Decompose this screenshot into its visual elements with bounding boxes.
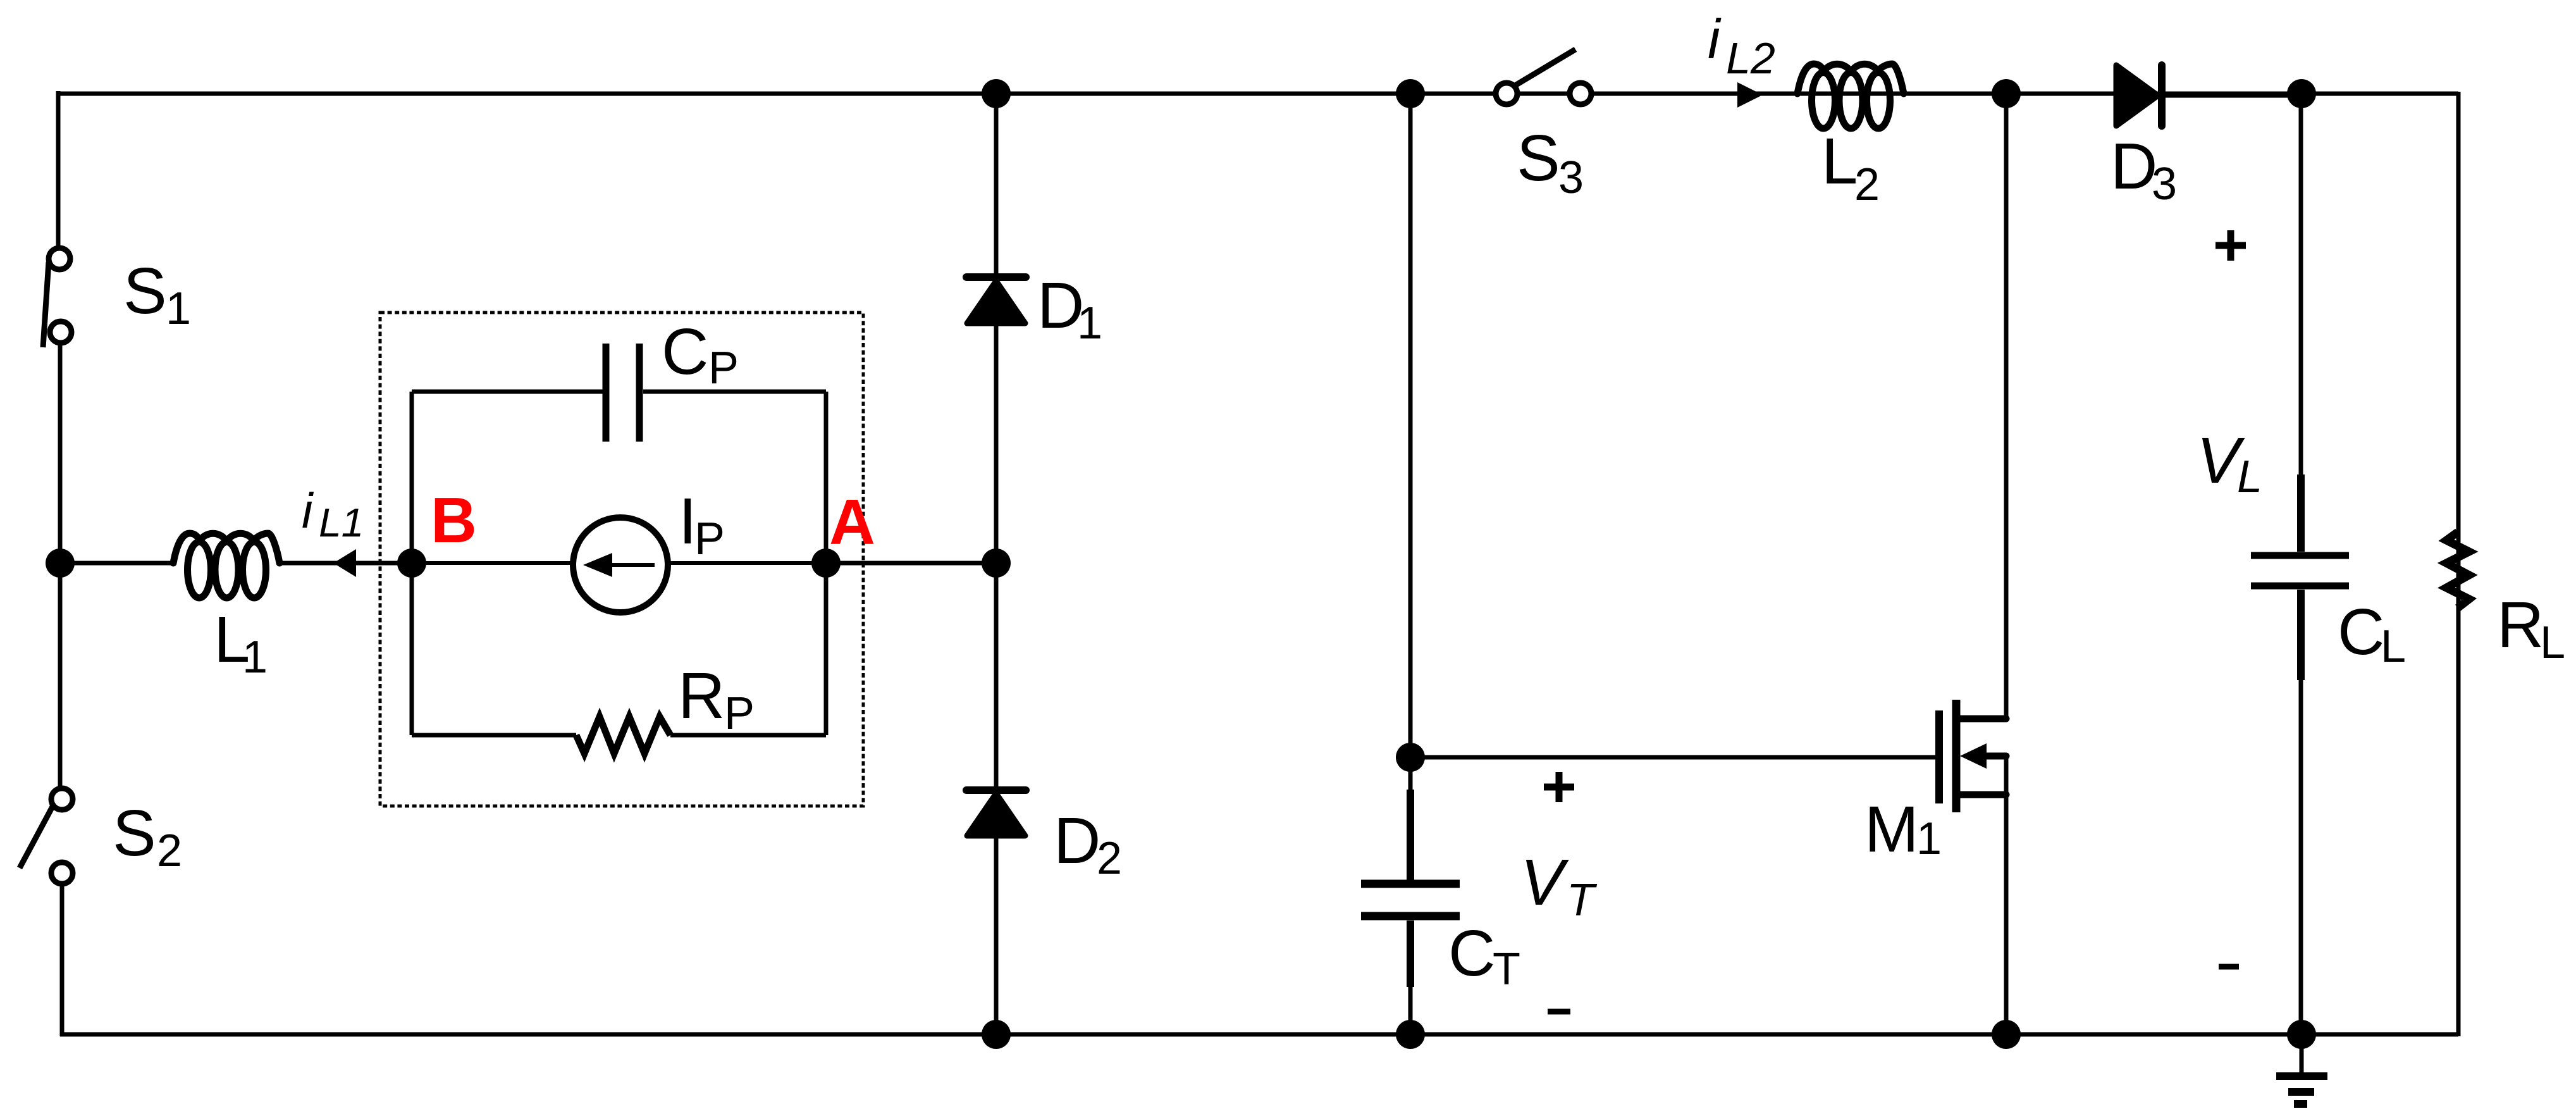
wire left mid — [58, 343, 63, 788]
wire bottom — [60, 1032, 2458, 1037]
ground — [2276, 1076, 2327, 1104]
resistor RP — [576, 717, 670, 753]
wire CT vertical top — [1408, 94, 1413, 880]
current arrow iL1 — [333, 549, 356, 577]
wire L2 to D3 — [1904, 92, 2116, 96]
switch S1 pole circles — [49, 248, 71, 343]
wire M1 drain vertical — [2004, 94, 2009, 719]
M1 body arrow — [1960, 743, 1987, 769]
wire left lower — [60, 884, 65, 1036]
node left — [46, 549, 75, 578]
M1 source lead — [1956, 791, 2006, 798]
switch S2 pole circles — [51, 788, 73, 884]
inductor L2 — [1797, 64, 1904, 128]
svg-text:A: A — [829, 487, 875, 558]
switch S1 blade — [43, 262, 49, 347]
svg-text:L1: L1 — [319, 500, 364, 545]
svg-text:1: 1 — [1077, 298, 1102, 349]
svg-text:1: 1 — [242, 632, 268, 683]
svg-text:M: M — [1864, 793, 1919, 865]
wire IP to node A — [668, 561, 826, 565]
wire ground stem — [2300, 1034, 2304, 1076]
wire CL vertical bottom — [2299, 664, 2303, 1034]
svg-text:2: 2 — [157, 826, 182, 876]
svg-text:S: S — [1517, 121, 1560, 194]
VL plus — [2215, 230, 2246, 261]
node bottom D2 — [982, 1020, 1011, 1049]
svg-text:L: L — [1821, 125, 1858, 197]
M1 gate bar — [1935, 710, 1943, 803]
VT minus — [1548, 1009, 1570, 1015]
svg-text:C: C — [2338, 595, 2384, 668]
node top M1 — [1992, 79, 2021, 108]
svg-text:R: R — [678, 659, 725, 732]
node bottom CL — [2287, 1020, 2316, 1049]
inductor L1 — [173, 533, 280, 598]
switch S2 blade — [20, 805, 53, 868]
node top D1 — [982, 79, 1011, 108]
wire node A to junction — [826, 561, 996, 566]
wire right — [2456, 92, 2461, 1036]
wire S3 right to L2 — [1591, 92, 1797, 96]
wire CT vertical bottom — [1408, 921, 1413, 1034]
wire node B to IP — [412, 561, 573, 565]
diode D3 — [2116, 65, 2158, 126]
svg-text:S: S — [113, 797, 156, 869]
diode D1 — [967, 281, 1025, 323]
wire gate — [1410, 755, 1935, 760]
wire L1 to node B — [280, 561, 412, 566]
capacitor CT — [1361, 790, 1460, 987]
capacitor CL — [2251, 474, 2349, 680]
svg-text:3: 3 — [2152, 159, 2177, 209]
node gate — [1396, 743, 1425, 772]
svg-text:D: D — [2111, 130, 2157, 202]
VL minus — [2219, 964, 2239, 970]
switch S3 pole circles — [1496, 83, 1591, 104]
VT plus — [1544, 772, 1574, 802]
svg-text:2: 2 — [1854, 159, 1880, 210]
svg-text:V: V — [1520, 846, 1569, 919]
wire mid left — [60, 561, 173, 566]
svg-text:P: P — [724, 688, 755, 739]
svg-text:1: 1 — [1916, 814, 1942, 864]
svg-text:2: 2 — [1097, 833, 1122, 884]
wire left upper — [56, 91, 61, 248]
wire D3 to CL node — [2166, 94, 2302, 98]
svg-text:P: P — [694, 514, 725, 564]
wire top — [58, 92, 2458, 96]
svg-text:3: 3 — [1558, 152, 1584, 203]
diode D2 — [967, 793, 1025, 836]
svg-text:i: i — [302, 483, 314, 538]
current arrow iL2 — [1737, 82, 1763, 108]
svg-text:S: S — [123, 254, 167, 327]
svg-text:P: P — [708, 343, 739, 394]
inner box wires — [412, 392, 826, 735]
svg-text:T: T — [1493, 944, 1520, 995]
svg-text:1: 1 — [166, 283, 191, 334]
svg-text:D: D — [1054, 804, 1100, 877]
svg-text:R: R — [2497, 588, 2544, 661]
svg-text:i: i — [1708, 8, 1722, 70]
M1 channel bar — [1952, 700, 1961, 812]
svg-text:C: C — [662, 315, 708, 388]
node B — [397, 549, 426, 578]
node mid junction — [982, 549, 1011, 578]
svg-text:B: B — [431, 485, 477, 556]
svg-text:L2: L2 — [1726, 34, 1775, 83]
resistor RL — [2446, 532, 2469, 608]
dashed box — [380, 313, 863, 806]
current source IP — [573, 518, 668, 612]
capacitor CP — [606, 344, 639, 442]
svg-text:L: L — [2237, 452, 2262, 502]
node A — [811, 549, 841, 578]
M1 drain lead — [1956, 716, 2006, 722]
wire M1 source vertical — [2004, 756, 2009, 1034]
node top CT — [1396, 79, 1425, 108]
node top CL — [2287, 79, 2316, 108]
wire CL vertical top — [2299, 94, 2303, 478]
svg-text:L: L — [2381, 621, 2406, 672]
svg-text:C: C — [1448, 917, 1495, 989]
switch S3 blade — [1514, 49, 1575, 86]
M1 body lead — [1983, 753, 2006, 760]
svg-text:T: T — [1567, 875, 1598, 926]
svg-text:L: L — [2540, 617, 2565, 668]
wire D1D2 vertical — [994, 94, 999, 1034]
node bottom M1 — [1992, 1020, 2021, 1049]
node bottom CT — [1396, 1020, 1425, 1049]
